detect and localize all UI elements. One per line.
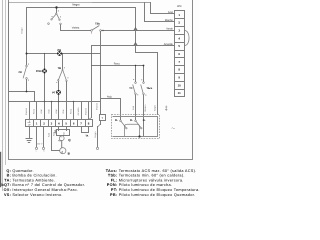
Q burner box xyxy=(57,130,70,136)
svg-text:Piloto luminoso de Bloqueo Que: Piloto luminoso de Bloqueo Quemador. xyxy=(119,193,196,197)
svg-text:Marrón: Marrón xyxy=(165,19,174,22)
TB PT chain verticals xyxy=(59,54,67,120)
component labels xyxy=(18,22,152,155)
squiggle right of FL box xyxy=(172,128,175,129)
svg-text:O/I:: O/I: xyxy=(4,188,12,192)
ground symbol below strip xyxy=(26,139,32,143)
FL ms blades xyxy=(121,121,141,127)
svg-text:Marrón: Marrón xyxy=(25,107,28,115)
wire A left drop and bottom bus xyxy=(9,3,101,102)
svg-text:Quemador.: Quemador. xyxy=(12,169,33,173)
svg-text:TSb:: TSb: xyxy=(108,174,118,178)
wire labels xyxy=(72,3,182,98)
svg-text:PON: PON xyxy=(36,70,42,73)
Verde wire to block 3 xyxy=(101,30,175,32)
svg-text:Rosa: Rosa xyxy=(70,108,73,114)
terminal numbers strip xyxy=(36,122,90,126)
svg-text:Q:: Q: xyxy=(6,169,11,173)
cells 4,5 to Q box xyxy=(59,127,67,131)
FL cam arch xyxy=(124,124,139,136)
svg-text:PON:: PON: xyxy=(107,183,118,187)
svg-text:Negro: Negro xyxy=(21,27,24,34)
tiny pin marks xyxy=(28,10,146,95)
page scan dark strip bottom-left xyxy=(0,153,2,187)
mains drops below strip xyxy=(30,127,44,148)
terminal numbers block xyxy=(178,13,182,95)
svg-text:Verde: Verde xyxy=(166,27,173,30)
lamp PON xyxy=(42,69,47,74)
Violeta wire xyxy=(61,30,91,32)
rotated small labels xyxy=(21,27,157,153)
wire B right vertical with hop gaps xyxy=(135,8,137,53)
svg-text:O/I: O/I xyxy=(18,71,22,74)
frame border xyxy=(9,1,193,160)
ground glyph inside cell xyxy=(28,121,31,126)
bQ7 external wire xyxy=(98,121,101,148)
wire B Negro top xyxy=(27,7,136,9)
svg-text:B:: B: xyxy=(7,174,12,178)
svg-text:Azul: Azul xyxy=(47,109,50,114)
wire drop to block terminal 1 xyxy=(151,3,175,14)
svg-text:Azul: Azul xyxy=(132,105,135,110)
svg-text:11: 11 xyxy=(178,91,181,95)
terminal block bracket 3-5 xyxy=(185,31,190,46)
burner circle xyxy=(59,136,64,141)
cell3 to pump xyxy=(52,127,60,151)
svg-text:Negro: Negro xyxy=(94,131,97,138)
contact circles xyxy=(26,13,145,150)
svg-text:FL: FL xyxy=(130,119,134,122)
svg-text:10: 10 xyxy=(178,83,182,87)
VS selector drop xyxy=(56,8,58,14)
page scan left edge xyxy=(2,1,4,191)
v2 vertical to bQ7 xyxy=(100,31,102,115)
svg-text:Violeta: Violeta xyxy=(72,26,80,29)
svg-text:PB:: PB: xyxy=(110,193,117,197)
bQ7 box xyxy=(100,115,106,121)
FL bottom wire xyxy=(121,136,158,138)
svg-text:PT:: PT: xyxy=(111,188,118,192)
Amarillo wire to block 5 xyxy=(92,45,175,47)
TA bucket xyxy=(82,132,89,134)
wire B jog to x157 down to FL box xyxy=(136,53,158,115)
svg-text:Termostato Ambiente.: Termostato Ambiente. xyxy=(12,178,55,182)
svg-text:Interruptor General Marcha-Par: Interruptor General Marcha-Paro. xyxy=(12,188,78,192)
svg-text:JP3: JP3 xyxy=(177,5,182,8)
svg-text:L: L xyxy=(36,150,37,153)
svg-text:Microrruptores válvula inverso: Microrruptores válvula inversora. xyxy=(119,178,184,182)
svg-text:Azul: Azul xyxy=(168,11,173,14)
TSb blade xyxy=(92,26,99,31)
pump B xyxy=(60,148,66,154)
PB branch horizontal xyxy=(27,53,101,55)
bQ7 wire jog xyxy=(98,124,101,127)
svg-text:Piloto luminoso de Bloqueo Tem: Piloto luminoso de Bloqueo Temperatura. xyxy=(119,188,200,192)
svg-text:VS:: VS: xyxy=(4,193,11,197)
svg-text:Termostato min. 60° (en calder: Termostato min. 60° (en caldera). xyxy=(119,174,185,178)
FL box inner xyxy=(113,117,158,137)
FL box outer dashed xyxy=(112,115,160,139)
TC lower to ms2 xyxy=(135,95,137,121)
svg-text:230 V~: 230 V~ xyxy=(37,143,44,146)
VS blades xyxy=(52,14,60,19)
svg-text:FL:: FL: xyxy=(111,178,118,182)
lamp PT xyxy=(56,90,61,95)
svg-text:Mar: Mar xyxy=(63,132,66,136)
terminal block JP3 xyxy=(175,11,185,97)
Q box to pump xyxy=(61,141,63,148)
svg-text:TC: TC xyxy=(129,87,133,90)
svg-text:TB: TB xyxy=(58,67,62,70)
svg-text:TAcs:: TAcs: xyxy=(106,169,118,173)
svg-text:Rosa: Rosa xyxy=(114,63,120,66)
hop bumps xyxy=(134,28,137,46)
terminal strip xyxy=(26,120,93,127)
svg-text:TA: TA xyxy=(85,135,88,138)
wire A neutral loop top faint left xyxy=(9,2,93,4)
svg-text:PT: PT xyxy=(52,92,56,95)
VS right throw down xyxy=(60,25,62,31)
TC blade xyxy=(133,85,136,94)
svg-text:Borna nº 7 del Control de Quem: Borna nº 7 del Control de Quemador. xyxy=(12,183,85,187)
svg-text:Azul: Azul xyxy=(48,132,51,137)
lamp PB xyxy=(57,51,62,56)
diagonal / curved wires: antialiased xyxy=(23,14,189,136)
svg-text:Termostato ACS max. 60° (salid: Termostato ACS max. 60° (salida ACS). xyxy=(119,169,197,173)
wire A top right xyxy=(93,2,151,4)
svg-text:Marrón: Marrón xyxy=(85,107,88,115)
svg-text:TA:: TA: xyxy=(4,178,11,182)
legend xyxy=(1,169,199,197)
svg-text:Azul: Azul xyxy=(40,109,43,114)
junction dots xyxy=(26,6,145,137)
svg-text:Azul: Azul xyxy=(55,109,58,114)
mystery bracket right of block xyxy=(165,106,167,112)
svg-text:Marrón: Marrón xyxy=(96,102,99,110)
svg-text:Selector Verano-Invierno.: Selector Verano-Invierno. xyxy=(12,193,62,197)
TAcs blade xyxy=(141,85,144,94)
svg-text:TSb: TSb xyxy=(95,22,100,25)
boxes xyxy=(26,11,185,139)
wire drop to block terminal 2 xyxy=(145,3,175,22)
svg-text:FL: FL xyxy=(115,119,119,122)
svg-text:PB: PB xyxy=(58,49,62,52)
O/I junction horizontals xyxy=(9,92,35,102)
svg-text:Negro: Negro xyxy=(72,3,80,6)
svg-text:Amarillo: Amarillo xyxy=(164,43,174,46)
O/I blade xyxy=(23,67,26,78)
svg-text:Bomba de Circulación.: Bomba de Circulación. xyxy=(12,174,57,178)
bus to strip drops xyxy=(30,102,89,120)
wire B vertical to O/I xyxy=(26,8,28,66)
TC chain upper xyxy=(135,66,137,83)
v1 jog into cell8 xyxy=(89,118,92,120)
svg-text:Negro: Negro xyxy=(154,104,157,111)
v1 from TSb left down xyxy=(91,46,93,118)
svg-text:Rosa: Rosa xyxy=(32,108,35,114)
svg-text:Piloto luminoso de marcha.: Piloto luminoso de marcha. xyxy=(119,183,173,187)
svg-text:Blanco: Blanco xyxy=(144,104,147,111)
Rosa wire xyxy=(92,65,144,67)
Rojo wire xyxy=(101,99,121,121)
TAcs chain drop xyxy=(143,66,145,83)
TA drops xyxy=(82,127,89,133)
orthogonal wires: crisp xyxy=(1,1,193,191)
svg-text:bQ7:: bQ7: xyxy=(1,183,11,187)
TAcs lower to FL bottom xyxy=(143,95,145,137)
O/I bottom wire xyxy=(26,79,28,92)
TB blade xyxy=(59,71,67,81)
svg-text:Amarillo: Amarillo xyxy=(77,107,80,116)
svg-text:Rojo: Rojo xyxy=(107,96,113,99)
PON chain xyxy=(44,54,46,120)
svg-text:TAcs: TAcs xyxy=(146,87,153,90)
